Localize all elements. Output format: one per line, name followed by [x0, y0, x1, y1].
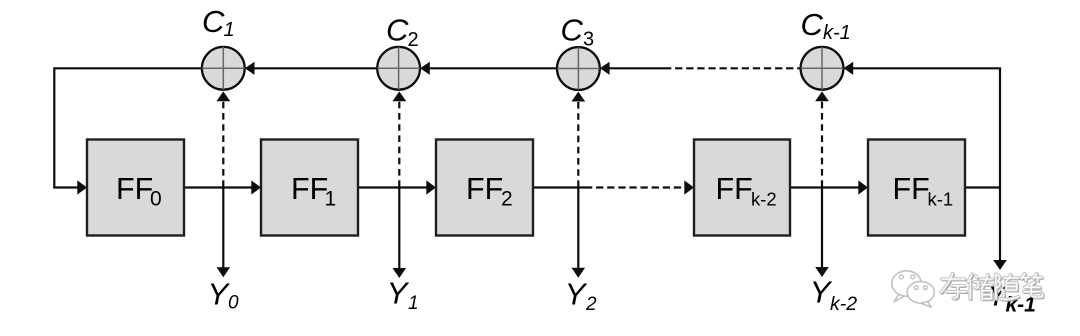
svg-text:Y: Y [387, 276, 410, 311]
wire tap down Yk-2 [821, 188, 823, 269]
wire FF2 to FFk-2 dashed part [585, 186, 684, 188]
wire FF0 to FF1 [184, 186, 252, 188]
wire FFk-2 to FFk-1 [790, 186, 859, 188]
wire top chain C3 to C2 [429, 67, 557, 69]
wire FFk-1 output to right vertical [965, 186, 1000, 188]
watermark icon big bubble [892, 271, 921, 302]
flip-flop FF0 box [87, 140, 184, 236]
svg-text:C: C [561, 13, 584, 48]
watermark char chu [968, 274, 994, 300]
wire tap down Y0 [222, 188, 224, 269]
watermark char sui [996, 274, 1020, 300]
svg-text:k-2: k-2 [751, 188, 777, 209]
wire tap up dashed to C3 [577, 102, 579, 187]
wire top chain C2 to C1 [254, 67, 378, 69]
watermark icon small bubble eyes [914, 286, 918, 290]
watermark char cun [941, 274, 967, 300]
wire arrowhead into FF0 [77, 180, 87, 194]
svg-text:k-2: k-2 [830, 293, 857, 315]
wire right feedback vertical [999, 68, 1001, 261]
svg-text:2: 2 [585, 294, 597, 315]
watermark icon small bubble [907, 281, 934, 307]
svg-text:C: C [801, 7, 824, 42]
wire FF2 to FFk-2 solid part [533, 186, 585, 188]
flip-flop FF2 box [436, 140, 533, 236]
watermark icon big bubble eyes [899, 275, 903, 279]
svg-text:1: 1 [408, 293, 419, 314]
wire arrowhead down Yk-1 [993, 260, 1007, 270]
wire feedback left: top horizontal from C1 to left edge, down, into FF0 [54, 68, 202, 187]
wire top chain dashed into C3 [600, 62, 610, 75]
flip-flop FFk-1 box [868, 140, 965, 236]
wire tap up dashed to Ck-1 [821, 102, 823, 187]
svg-text:2: 2 [501, 187, 513, 210]
wire tap up dashed to C2 [398, 102, 400, 187]
svg-text:FF: FF [116, 172, 153, 206]
wire top chain right vertical into Ck-1 [844, 62, 854, 75]
svg-text:1: 1 [325, 187, 337, 210]
svg-text:2: 2 [408, 29, 419, 51]
svg-text:Y: Y [565, 277, 588, 312]
svg-text:0: 0 [150, 187, 162, 210]
wire FF1 to FF2 [358, 186, 427, 188]
wire tap up dashed to C1 [222, 102, 224, 187]
wire tap down Y2 [577, 188, 579, 269]
svg-text:1: 1 [224, 19, 235, 41]
svg-text:3: 3 [583, 29, 594, 51]
xor C2 circle [377, 47, 420, 90]
svg-text:FF: FF [466, 172, 503, 206]
flip-flop FF1 box [261, 140, 358, 236]
svg-text:C: C [386, 13, 409, 48]
flip-flop FFk-2 box [694, 140, 790, 236]
watermark char bi [1021, 274, 1044, 299]
svg-text:FF: FF [716, 172, 753, 206]
xor Ck-1 circle [801, 47, 844, 90]
svg-text:FF: FF [291, 172, 328, 206]
svg-text:0: 0 [228, 293, 239, 314]
xor C3 circle [557, 47, 600, 90]
svg-text:C: C [202, 4, 225, 39]
svg-text:k-1: k-1 [823, 22, 851, 44]
wire tap down Y1 [398, 188, 400, 270]
xor C1 circle [202, 47, 245, 90]
svg-text:FF: FF [893, 172, 930, 206]
svg-text:k-1: k-1 [928, 188, 954, 209]
